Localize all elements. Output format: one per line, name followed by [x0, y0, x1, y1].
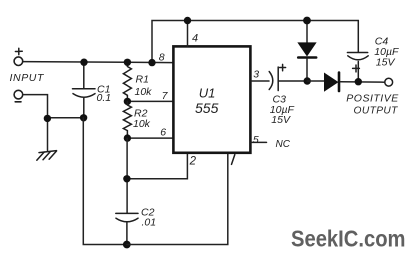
node junction R1 R2: [124, 98, 131, 105]
pin 8 label: [159, 52, 165, 64]
label C2 value: [141, 207, 156, 229]
svg-text:U1: U1: [199, 86, 216, 101]
svg-text:OUTPUT: OUTPUT: [354, 106, 399, 117]
svg-text:3: 3: [253, 69, 259, 81]
svg-text:555: 555: [195, 100, 219, 116]
wire pin 3 to C3: [251, 80, 269, 82]
node junction C1 bottom: [80, 114, 87, 121]
wire input minus line: [23, 95, 48, 118]
svg-text:0.1: 0.1: [97, 92, 112, 104]
label NC: [276, 139, 291, 150]
terminal positive output: [385, 78, 393, 86]
ground: [37, 151, 57, 161]
node junction D1 top rail: [303, 17, 311, 25]
diode D2 series: [325, 73, 340, 91]
label C4 plus sign: [353, 65, 360, 72]
svg-text:10k: 10k: [133, 118, 151, 130]
svg-text:4: 4: [192, 32, 198, 44]
svg-text:5: 5: [253, 134, 259, 146]
svg-text:.01: .01: [142, 217, 157, 229]
svg-text:15V: 15V: [376, 57, 396, 69]
svg-text:15V: 15V: [271, 114, 291, 126]
pin 3 label: [253, 69, 259, 81]
svg-text:2: 2: [189, 156, 197, 168]
pin 7 label: [162, 90, 169, 102]
terminal minus input: [14, 90, 23, 102]
node junction R1 top: [124, 59, 131, 66]
terminal plus input: [14, 48, 23, 65]
label C3 plus sign: [280, 64, 286, 70]
pin 4 label: [192, 32, 198, 44]
svg-text:8: 8: [159, 52, 165, 64]
resistor R1: [123, 62, 131, 101]
wire R2 to C2: [126, 138, 128, 213]
pin 2 label: [189, 156, 197, 168]
label C3 value: [270, 94, 295, 127]
node junction C2 bottom rail: [123, 241, 131, 249]
svg-text:6: 6: [160, 127, 166, 139]
capacitor C2: [116, 213, 138, 244]
node junction pin4 top rail: [184, 17, 191, 24]
wire minus junction to C1 bottom junction: [48, 117, 84, 119]
SeekIC.com watermark: [291, 226, 406, 252]
pin 1 label: [232, 155, 235, 165]
svg-text:7: 7: [162, 90, 169, 102]
wire bottom rail and pin 1: [127, 153, 228, 245]
wire pin 6: [127, 137, 172, 139]
label R1 value: [135, 74, 153, 99]
svg-text:POSITIVE: POSITIVE: [346, 93, 399, 105]
label C4 value: [374, 36, 399, 69]
wire pin 2: [127, 153, 187, 179]
svg-text:10k: 10k: [135, 86, 153, 98]
wire pin 5 NC stub: [251, 141, 267, 143]
wire pin 4: [187, 21, 189, 47]
node junction C1 top: [80, 59, 87, 66]
op-amp U1 555 timer box: [173, 46, 250, 152]
capacitor C3: [269, 67, 304, 91]
wire left vertical to bottom rail: [83, 118, 127, 245]
node junction R2 bottom: [124, 134, 131, 141]
wire ground branch: [47, 118, 49, 151]
label C1 value: [97, 84, 112, 105]
capacitor C1: [73, 63, 96, 118]
capacitor C4: [347, 21, 368, 82]
diode D1 shunt: [298, 21, 316, 82]
pin 6 label: [160, 127, 166, 139]
node junction C4 output wire: [355, 78, 362, 85]
svg-text:NC: NC: [276, 139, 291, 150]
label INPUT: [10, 72, 45, 84]
wire input plus line: [23, 62, 173, 63]
label POSITIVE OUTPUT: [346, 93, 399, 117]
resistor R2: [123, 101, 131, 138]
wire D1 junction to D2: [307, 80, 324, 82]
wire top positive rail: [152, 21, 358, 63]
node junction D1 output wire: [304, 77, 311, 84]
pin 5 label: [253, 134, 259, 146]
svg-text:R1: R1: [136, 74, 149, 86]
node junction pin2 wire: [123, 175, 130, 182]
wire D2 to output terminal: [340, 81, 384, 83]
node junction minus-ground: [44, 115, 51, 122]
svg-text:INPUT: INPUT: [10, 72, 45, 84]
label R2 value: [133, 108, 151, 131]
svg-text:SeekIC.com: SeekIC.com: [291, 226, 406, 252]
node junction top rail leg on input wire: [148, 59, 155, 66]
wire pin 7: [127, 100, 172, 102]
